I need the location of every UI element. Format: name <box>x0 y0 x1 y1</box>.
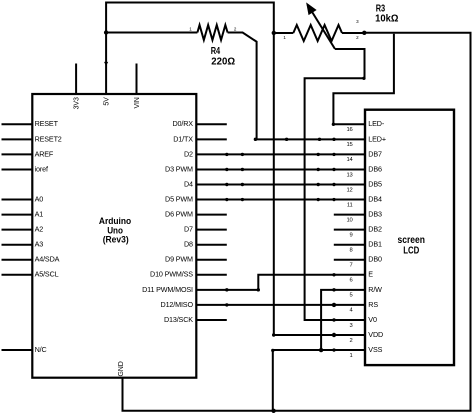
svg-text:DB5: DB5 <box>368 179 382 188</box>
svg-text:RS: RS <box>368 300 378 309</box>
svg-text:D8: D8 <box>184 240 193 249</box>
svg-text:RESET: RESET <box>35 119 59 128</box>
svg-text:AREF: AREF <box>35 149 54 158</box>
svg-text:DB3: DB3 <box>368 210 382 219</box>
svg-text:DB0: DB0 <box>368 255 382 264</box>
svg-text:5: 5 <box>350 293 353 299</box>
svg-text:D10 PWM/SS: D10 PWM/SS <box>150 270 193 279</box>
svg-text:D13/SCK: D13/SCK <box>164 315 193 324</box>
svg-text:D5 PWM: D5 PWM <box>165 194 193 203</box>
svg-text:Arduino: Arduino <box>99 216 132 226</box>
svg-text:VDD: VDD <box>368 330 383 339</box>
svg-text:D12/MISO: D12/MISO <box>161 300 194 309</box>
svg-text:D4: D4 <box>184 179 193 188</box>
svg-text:8: 8 <box>350 248 353 254</box>
svg-text:13: 13 <box>346 172 352 178</box>
svg-text:220Ω: 220Ω <box>211 56 235 67</box>
svg-text:A0: A0 <box>35 194 44 203</box>
svg-text:LED-: LED- <box>368 119 385 128</box>
svg-text:9: 9 <box>350 232 353 238</box>
svg-text:D0/RX: D0/RX <box>172 119 193 128</box>
svg-text:ioref: ioref <box>35 164 48 173</box>
svg-text:D6 PWM: D6 PWM <box>165 210 193 219</box>
svg-text:DB2: DB2 <box>368 225 382 234</box>
svg-text:14: 14 <box>346 157 353 163</box>
svg-text:3: 3 <box>350 323 353 329</box>
svg-text:12: 12 <box>346 187 352 193</box>
svg-text:(Rev3): (Rev3) <box>103 234 129 244</box>
svg-text:E: E <box>368 270 373 279</box>
svg-text:R4: R4 <box>211 46 221 57</box>
svg-text:3V3: 3V3 <box>74 97 81 109</box>
svg-text:11: 11 <box>347 202 353 208</box>
svg-text:10kΩ: 10kΩ <box>375 13 398 24</box>
svg-text:DB6: DB6 <box>368 164 382 173</box>
svg-text:A1: A1 <box>35 210 44 219</box>
svg-text:1: 1 <box>350 353 353 359</box>
svg-text:D9 PWM: D9 PWM <box>165 255 193 264</box>
svg-text:15: 15 <box>346 142 352 148</box>
svg-text:DB4: DB4 <box>368 194 382 203</box>
svg-text:16: 16 <box>346 127 352 133</box>
svg-text:2: 2 <box>350 338 353 344</box>
svg-text:N/C: N/C <box>35 345 47 354</box>
svg-text:screen: screen <box>398 235 426 246</box>
svg-text:6: 6 <box>350 278 353 284</box>
svg-text:D2: D2 <box>184 149 193 158</box>
svg-text:GND: GND <box>118 361 125 376</box>
svg-text:DB7: DB7 <box>368 149 382 158</box>
svg-text:VIN: VIN <box>134 97 141 108</box>
svg-text:LED+: LED+ <box>368 134 386 143</box>
svg-text:A5/SCL: A5/SCL <box>35 270 59 279</box>
svg-text:10: 10 <box>346 217 352 223</box>
svg-text:LCD: LCD <box>403 245 419 256</box>
svg-text:A2: A2 <box>35 225 44 234</box>
svg-text:7: 7 <box>350 263 353 269</box>
svg-text:5V: 5V <box>104 97 111 106</box>
svg-text:V0: V0 <box>368 315 377 324</box>
svg-text:DB1: DB1 <box>368 240 382 249</box>
svg-text:D11 PWM/MOSI: D11 PWM/MOSI <box>142 285 193 294</box>
svg-text:VSS: VSS <box>368 345 382 354</box>
svg-text:RESET2: RESET2 <box>35 134 62 143</box>
svg-text:D1/TX: D1/TX <box>173 134 193 143</box>
svg-text:D7: D7 <box>184 225 193 234</box>
svg-text:D3 PWM: D3 PWM <box>165 164 193 173</box>
svg-text:R/W: R/W <box>368 285 382 294</box>
svg-text:A3: A3 <box>35 240 44 249</box>
svg-text:A4/SDA: A4/SDA <box>35 255 60 264</box>
